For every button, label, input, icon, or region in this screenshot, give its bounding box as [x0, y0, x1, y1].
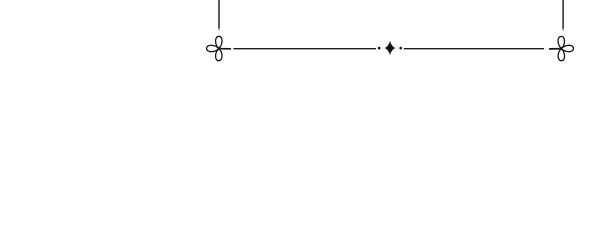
right vertical line [562, 0, 564, 29]
right flourish (mirrored) [550, 36, 574, 60]
left vertical line [218, 0, 220, 29]
center four-pointed star [385, 41, 395, 56]
left dot [378, 47, 381, 50]
left flourish [207, 36, 231, 60]
right horizontal rule [404, 48, 544, 50]
left vertical line fading tail [218, 29, 220, 31]
left horizontal rule [234, 48, 377, 50]
right dot [399, 47, 402, 50]
right vertical line fading tail [562, 29, 564, 31]
